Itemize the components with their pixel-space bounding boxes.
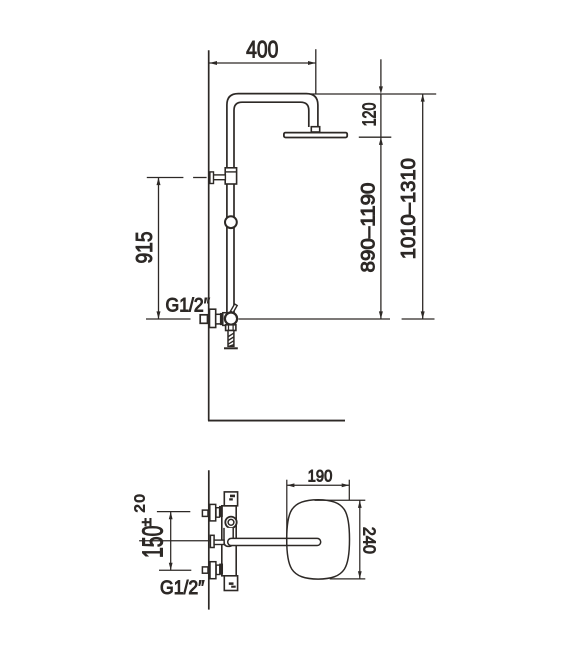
nut facet lines (228, 325, 230, 330)
slider ring (225, 216, 237, 228)
dim 240 line (359, 500, 361, 579)
mixer top cap (224, 492, 237, 506)
dim 190 ext left (286, 480, 288, 545)
riser pipe with arm outer edge (227, 94, 318, 314)
dim 400 right extension (315, 49, 317, 93)
svg-text:890–1190: 890–1190 (358, 183, 379, 273)
mixer bottom cap (224, 576, 237, 591)
dim 240 ext bottom (330, 578, 366, 580)
top port connector (216, 508, 220, 518)
svg-text:150: 150 (138, 526, 170, 558)
handshower head (287, 500, 350, 579)
bottom port connector (216, 565, 220, 574)
svg-text:190: 190 (308, 468, 333, 486)
svg-text:240: 240 (359, 527, 379, 554)
dim 190 line (287, 484, 350, 486)
top port square (202, 510, 208, 516)
arrow 400 left (209, 61, 217, 65)
dim 150 ext bottom (159, 569, 191, 571)
dim 150 ext top (157, 511, 190, 513)
holder rod (214, 540, 224, 544)
knob circle (225, 517, 236, 528)
wall flange (210, 535, 214, 547)
dim 915 ext line top (147, 177, 184, 179)
threaded hose tail (228, 331, 234, 347)
valve wall square (200, 315, 207, 324)
valve body (223, 313, 230, 326)
svg-text:400: 400 (246, 35, 278, 63)
dim 150 line (170, 512, 172, 571)
outlet center line (139, 540, 210, 542)
mixer body (222, 506, 236, 576)
top port dark piece (220, 507, 223, 517)
handshower handle bar (228, 538, 321, 545)
hose end line (224, 347, 238, 349)
valve circle (225, 313, 237, 325)
thread hatch (228, 333, 234, 336)
ext tick valve level mid (238, 318, 390, 320)
wall line (bottom view) (208, 470, 210, 609)
svg-text:±: ± (138, 518, 155, 526)
svg-text:G1/2″: G1/2″ (160, 576, 205, 598)
knob inner circle (228, 519, 234, 525)
bracket divider (225, 171, 236, 173)
handshower holder (224, 528, 233, 547)
dim 915 line (158, 178, 160, 320)
top cap screw (229, 495, 235, 501)
dim line 1010-1310 (422, 94, 424, 319)
svg-text:20: 20 (131, 493, 148, 513)
svg-text:1010–1310: 1010–1310 (398, 158, 420, 259)
dim 400 line (209, 62, 316, 64)
bracket rod (213, 175, 225, 180)
svg-text:120: 120 (359, 103, 380, 127)
valve nut (226, 325, 236, 331)
ext line arm top (311, 93, 436, 95)
bottom port square (202, 567, 208, 573)
bottom cap screw (229, 582, 236, 587)
dim 190 ext right (348, 480, 350, 501)
bottom port dark piece (220, 564, 223, 574)
svg-text:G1/2″: G1/2″ (166, 293, 211, 315)
dim line 120/890-1190 (380, 59, 382, 87)
valve mid piece (216, 314, 221, 324)
wall line (top view) (208, 50, 210, 420)
svg-text:915: 915 (131, 231, 157, 263)
arrow 400 right (308, 61, 316, 65)
dim 240 ext top (315, 499, 366, 501)
bottom port escutcheon (210, 562, 216, 579)
valve dark connector (221, 314, 224, 325)
slider bracket block (225, 168, 236, 184)
bracket handle (210, 172, 214, 184)
floor line (208, 420, 345, 422)
riser pipe with arm inner edge (234, 102, 309, 313)
valve escutcheon (210, 309, 216, 327)
valve lever (231, 304, 238, 313)
shower head collar (311, 127, 319, 132)
ext tick head level (359, 136, 392, 138)
ext tick valve level left (146, 318, 191, 320)
shower head disc (284, 133, 347, 138)
ext tick valve level right (402, 318, 435, 320)
top port escutcheon (210, 504, 216, 521)
